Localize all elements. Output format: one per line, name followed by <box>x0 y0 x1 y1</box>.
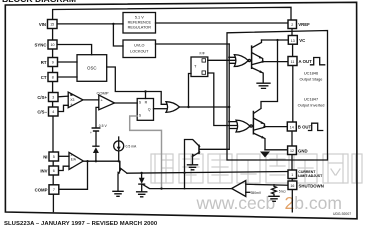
svg-text:6: 6 <box>53 169 55 173</box>
svg-text:www.cecb: www.cecb <box>196 193 276 213</box>
wire RT to OSC <box>58 61 78 63</box>
pin 2 VREF <box>288 20 310 29</box>
svg-text:7: 7 <box>53 188 55 192</box>
svg-text:SYNC: SYNC <box>35 42 47 47</box>
pin 12 GND <box>288 146 308 155</box>
watermark Chinese characters row <box>151 154 362 183</box>
svg-text:RT: RT <box>41 60 47 65</box>
svg-text:15: 15 <box>50 23 54 27</box>
svg-text:350mV: 350mV <box>251 191 262 195</box>
svg-text:C/S+: C/S+ <box>37 95 47 100</box>
svg-text:S: S <box>139 101 142 105</box>
wire current limit adjust line <box>127 172 288 174</box>
svg-text:T: T <box>194 64 197 69</box>
wire C/S+ to current sense amp <box>58 95 68 98</box>
svg-text:VIN: VIN <box>39 22 46 27</box>
node diode D2 junction <box>140 172 142 174</box>
wire latch Q to OR gate <box>154 108 167 110</box>
node OR1 to T flip-flop <box>187 106 189 108</box>
wire inner pin rail <box>291 29 294 212</box>
wire shutdown line to pin 16 <box>246 183 288 186</box>
svg-text:0.5 mA: 0.5 mA <box>126 145 137 149</box>
svg-text:E/A: E/A <box>71 157 77 161</box>
transistor Q clamp <box>119 162 121 171</box>
wire VIN to reference regulator <box>57 23 123 25</box>
wire CT to OSC <box>58 76 78 78</box>
svg-text:CT: CT <box>41 75 47 80</box>
waveform at B OUT <box>309 123 323 130</box>
wire VIN down to UVLO input <box>113 24 123 46</box>
wire current source to E/A node <box>118 151 120 161</box>
ground under Q shutdown <box>187 165 197 170</box>
ground under resistor <box>269 196 279 201</box>
svg-text:0.5 V: 0.5 V <box>99 124 108 128</box>
box output stage <box>227 31 328 161</box>
svg-text:+: + <box>101 98 104 103</box>
svg-text:5: 5 <box>53 155 55 159</box>
ground under A totem <box>257 83 270 88</box>
svg-text:+: + <box>90 131 92 135</box>
wire SYNC to OSC <box>57 45 92 55</box>
pin 5 NI <box>43 152 58 161</box>
svg-text:b.com: b.com <box>294 193 342 213</box>
wire V2 UVLO/clock bus <box>229 44 236 129</box>
svg-text:A OUT: A OUT <box>299 59 313 64</box>
svg-text:S: S <box>139 114 142 118</box>
wire PWM comparator output to latch <box>115 102 138 104</box>
wire B OUT <box>265 126 288 128</box>
svg-text:4: 4 <box>52 110 54 114</box>
svg-text:SHUTDOWN: SHUTDOWN <box>299 183 324 188</box>
pin 3 C/S+ <box>37 93 58 102</box>
ground under B totem <box>260 152 270 158</box>
wire GND line <box>265 149 288 151</box>
wire regulator output to VREF pin <box>156 22 289 24</box>
svg-text:Output Stage: Output Stage <box>300 77 323 82</box>
transistor QA upper totem <box>250 46 251 68</box>
wire INV to error amp <box>59 166 70 170</box>
wire T-FF Qbar to NOR B <box>208 73 237 126</box>
node OR1 to V2 <box>228 106 230 108</box>
resistor 5k <box>272 185 277 196</box>
svg-text:Q: Q <box>148 107 151 111</box>
svg-text:8: 8 <box>52 76 54 80</box>
svg-text:9: 9 <box>52 61 54 65</box>
svg-text:C/S−: C/S− <box>37 109 47 114</box>
svg-text:SLUS223A – JANUARY 1997 – REVI: SLUS223A – JANUARY 1997 – REVISED MARCH … <box>4 221 158 225</box>
wire T-FF Q to NOR A <box>208 59 235 61</box>
comparator shutdown 350mV (points left) <box>232 181 246 197</box>
transistor Q shutdown <box>198 145 200 153</box>
pin 7 COMP <box>35 185 59 194</box>
svg-text:REFERENCE: REFERENCE <box>128 20 152 24</box>
svg-text:REGULATOR: REGULATOR <box>128 25 152 29</box>
wire A OUT <box>263 61 288 63</box>
svg-text:R: R <box>145 101 148 105</box>
svg-text:BLOCK DIAGRAM: BLOCK DIAGRAM <box>2 0 76 4</box>
wire C/S- to current sense amp <box>58 105 68 111</box>
ground under Q clamp <box>113 191 123 196</box>
svg-text:INV: INV <box>40 168 47 173</box>
svg-text:OSC: OSC <box>87 66 97 71</box>
pin 8 CT <box>41 73 58 82</box>
wire left pin bus <box>52 29 55 212</box>
svg-text:5 kΩ: 5 kΩ <box>279 190 286 194</box>
wire comparator minus input riser <box>96 107 99 127</box>
watermark url row <box>196 193 342 213</box>
pin 1 CURRENT LIMIT ADJUST <box>288 170 323 179</box>
svg-text:F/F: F/F <box>200 52 206 56</box>
svg-text:UVLO: UVLO <box>134 44 144 48</box>
svg-text:VREF: VREF <box>298 22 310 27</box>
wire NI to error amp <box>59 155 70 157</box>
svg-text:16: 16 <box>290 184 294 188</box>
node clock to latch R <box>144 90 146 92</box>
svg-text:13: 13 <box>291 39 295 43</box>
regulator U-REF box <box>123 13 156 34</box>
pin 15 VIN <box>39 20 57 29</box>
svg-text:NI: NI <box>43 154 47 159</box>
pin 16 SHUTDOWN <box>288 181 324 190</box>
wire VIN top loop to VREF <box>53 7 291 20</box>
node B output <box>263 125 265 127</box>
wire UVLO output <box>156 43 230 45</box>
pin 4 C/S- <box>37 107 58 116</box>
latch PWM S-R box <box>137 99 153 121</box>
svg-text:12: 12 <box>290 149 294 153</box>
svg-text:+: + <box>70 153 72 157</box>
wire diode to shutdown comparator output <box>143 184 185 188</box>
transistor QB lower totem <box>252 112 253 134</box>
oscillator OSC box <box>77 55 107 82</box>
wire Qsd base from bus <box>228 129 230 150</box>
svg-text:UDG-92007: UDG-92007 <box>333 212 351 216</box>
wire E/A output line <box>83 160 118 162</box>
gate OR1 clock/latch <box>166 102 180 113</box>
svg-text:COMP: COMP <box>35 187 48 192</box>
gate NOR B output stage <box>236 120 250 132</box>
wire T flip-flop input riser <box>189 74 192 108</box>
svg-text:11: 11 <box>291 60 295 64</box>
wire 350mV reference stub <box>246 191 250 193</box>
pin 9 RT <box>41 58 58 67</box>
op-amp E/A error amplifier <box>69 152 83 169</box>
wire battery to diode <box>95 132 97 146</box>
wire OR1 output <box>180 106 230 108</box>
pin 11 A OUT <box>288 57 312 66</box>
svg-text:VC: VC <box>299 38 305 43</box>
battery 0.5V offset <box>92 128 99 131</box>
current source 0.5mA <box>118 137 120 141</box>
node A output <box>262 60 264 62</box>
node collector to output line <box>183 172 185 174</box>
svg-text:UC1847: UC1847 <box>304 97 318 102</box>
svg-text:5.1 V: 5.1 V <box>135 15 144 19</box>
wire C/S amp output to PWM comparator <box>83 99 99 101</box>
wire VC rail <box>276 39 278 41</box>
pin 14 B OUT <box>287 122 311 131</box>
svg-text:UC1846: UC1846 <box>304 71 318 76</box>
node E/A diode junction <box>95 160 97 162</box>
waveform at A OUT <box>311 58 325 65</box>
wire OSC clock output <box>107 67 167 104</box>
wire latch S2 gray route to shutdown <box>130 116 162 189</box>
node gray S2 junction <box>160 187 162 189</box>
op-amp current sense X3 <box>68 92 83 108</box>
svg-text:GND: GND <box>298 148 308 153</box>
node VIN junction <box>112 23 114 25</box>
pin 10 SYNC <box>35 40 57 49</box>
node current source junction <box>118 160 120 162</box>
diode D1 (points up into 0.5V) <box>93 145 99 147</box>
svg-text:2: 2 <box>291 23 293 27</box>
text UC1846 output stage <box>298 71 325 108</box>
ground under diode D2 <box>137 192 147 197</box>
gate NOR A output stage <box>234 55 248 67</box>
diode D2 <box>141 173 143 178</box>
svg-text:Output Inverted: Output Inverted <box>298 103 325 108</box>
svg-text:1: 1 <box>291 173 293 177</box>
pin 6 INV <box>40 166 58 175</box>
node COMP riser junction <box>86 160 88 162</box>
svg-text:10: 10 <box>51 43 55 47</box>
svg-text:14: 14 <box>290 125 294 129</box>
svg-text:LOCKOUT: LOCKOUT <box>130 50 149 54</box>
pin 13 VC <box>288 36 305 45</box>
svg-text:B OUT: B OUT <box>298 125 312 130</box>
UVLO lockout box <box>123 40 156 58</box>
wire COMP pin riser <box>59 161 88 189</box>
svg-text:3: 3 <box>52 96 54 100</box>
svg-text:LIMIT ADJUST: LIMIT ADJUST <box>298 174 323 178</box>
svg-text:−: − <box>70 166 72 170</box>
